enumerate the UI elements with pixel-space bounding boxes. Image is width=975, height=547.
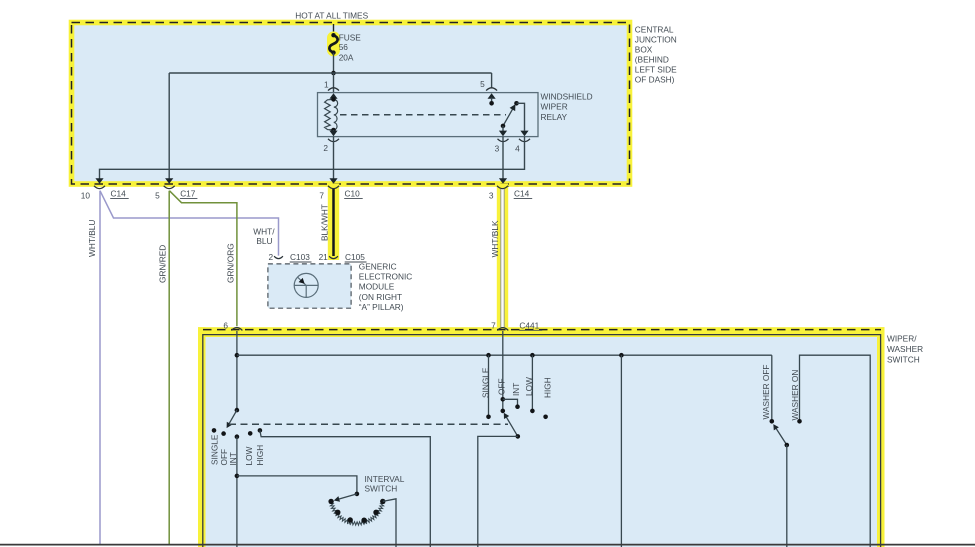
washer switch arm (776, 428, 787, 446)
svg-text:WASHER: WASHER (887, 344, 923, 354)
svg-text:21: 21 (319, 252, 329, 262)
C441 pin 7 entry (497, 328, 508, 331)
central junction box (CJB) outline (72, 23, 630, 185)
svg-text:WASHER OFF: WASHER OFF (761, 364, 771, 419)
wire: relay pin 3 down to C14 exit (502, 137, 504, 180)
svg-text:6: 6 (223, 320, 228, 330)
svg-text:“A” PILLAR): “A” PILLAR) (359, 302, 404, 312)
svg-text:(ON RIGHT: (ON RIGHT (359, 292, 402, 302)
svg-text:5: 5 (155, 190, 160, 200)
wire BLK/WHT (yellow highlighted) CJB to GEM pin 21 (328, 184, 339, 261)
svg-text:C10: C10 (345, 189, 361, 199)
GEM pin 21 C105 (329, 256, 338, 258)
relay box U: windshield wiper relay (318, 93, 539, 137)
relay pin 4 exit (520, 131, 528, 137)
fuse 56 20A (yellow highlighted) (327, 32, 340, 57)
svg-text:1: 1 (324, 80, 329, 90)
svg-text:GENERIC: GENERIC (359, 262, 397, 272)
wire: INT contact down / junction (236, 437, 238, 547)
svg-text:2: 2 (268, 252, 273, 262)
svg-text:C14: C14 (111, 189, 127, 199)
center switch arm (505, 415, 518, 436)
svg-text:LOW: LOW (524, 377, 534, 396)
relay pin 3 exit (502, 126, 504, 131)
washer switch contacts (770, 419, 775, 424)
svg-text:HIGH: HIGH (255, 445, 265, 466)
GEM internal timer symbol (294, 273, 318, 297)
CJB exit 3 C14 (499, 178, 507, 184)
svg-text:SINGLE: SINGLE (480, 367, 490, 398)
wire: bus segment washer on (800, 355, 871, 547)
wire: interval arc to lower right (383, 499, 396, 547)
svg-text:SINGLE: SINGLE (209, 434, 219, 465)
wire GRN/ORG branch to C441 pin 6 (169, 191, 237, 327)
svg-text:10: 10 (81, 190, 91, 200)
wire WHT/BLU vertical (to bottom of page) (99, 191, 101, 544)
svg-text:WHT/BLK: WHT/BLK (490, 220, 500, 257)
interval switch rheostat arc (330, 501, 337, 513)
svg-text:3: 3 (495, 143, 500, 153)
svg-text:C103: C103 (290, 252, 310, 262)
wire: moving contact to lower bus (478, 436, 518, 547)
svg-text:GRN/RED: GRN/RED (158, 245, 168, 283)
wire: fuse to node (333, 53, 335, 73)
wire: drop to pin 5 of relay (491, 73, 493, 88)
left switch contacts SINGLE OFF INT LOW HIGH (212, 428, 217, 433)
wire: HIGH contact to lower bus (260, 430, 430, 547)
center contacts: SINGLE / LOW stems, HIGH dot (488, 355, 490, 417)
svg-text:OF DASH): OF DASH) (635, 75, 675, 85)
relay switch arm (503, 108, 514, 126)
svg-text:7: 7 (491, 321, 496, 331)
wire GRN/RED vertical (168, 191, 170, 544)
svg-text:OFF: OFF (497, 378, 507, 395)
CJB exit 10 C14 (95, 178, 103, 184)
svg-text:INTERVAL: INTERVAL (365, 474, 405, 484)
svg-text:WINDSHIELD: WINDSHIELD (541, 92, 593, 102)
wire WHT/BLK (yellow highlighted) CJB to C441 pin 7 (497, 184, 508, 331)
relay contact: fixed point (pin 5 side) (514, 101, 519, 106)
wire: relay pin 4 down then left to C14 pin 10 exit (100, 137, 525, 180)
wire: long vertical from bus (620, 355, 622, 547)
svg-text:HIGH: HIGH (543, 377, 553, 398)
wire: top bus across box (237, 354, 772, 356)
svg-text:BLK/WHT: BLK/WHT (320, 204, 330, 241)
center switch: wire pin 7 down (502, 331, 504, 411)
wire: battery feed into fuse (333, 24, 335, 35)
svg-text:WASHER ON: WASHER ON (790, 370, 800, 421)
svg-text:C17: C17 (180, 189, 196, 199)
svg-text:SWITCH: SWITCH (365, 484, 398, 494)
relay coil (resistor+inductor) (325, 99, 334, 130)
svg-text:CENTRAL: CENTRAL (635, 25, 674, 35)
CJB exit 5 C17 (165, 178, 173, 184)
svg-text:2: 2 (323, 143, 328, 153)
pin 1 connector (328, 88, 339, 91)
page bottom edge line (0, 544, 975, 546)
relay pin 2 exit (333, 130, 335, 131)
svg-text:WHT/BLU: WHT/BLU (87, 220, 97, 257)
svg-text:BLU: BLU (256, 236, 272, 246)
wire: node down to relay pin 1 (333, 73, 335, 93)
branch to INT contact (503, 399, 518, 406)
svg-text:LEFT SIDE: LEFT SIDE (635, 65, 677, 75)
left switch: pivot and arm (235, 408, 240, 413)
wire: washer moving contact down (786, 445, 788, 547)
svg-text:WHT/: WHT/ (253, 227, 275, 237)
svg-text:WIPER/: WIPER/ (887, 334, 917, 344)
svg-text:20A: 20A (339, 52, 354, 62)
svg-text:(BEHIND: (BEHIND (635, 55, 669, 65)
dashed link left switch to center switch (229, 423, 508, 425)
GEM box: generic electronic module (268, 264, 351, 308)
svg-text:LOW: LOW (244, 446, 254, 465)
dashed mechanical link coil to contacts (340, 114, 506, 116)
svg-text:3: 3 (489, 190, 494, 200)
svg-text:ELECTRONIC: ELECTRONIC (359, 272, 412, 282)
wire: relay pin 2 down to C10 exit (333, 137, 335, 180)
svg-text:C441: C441 (519, 321, 539, 331)
wire WHT/BLU branch to GEM pin 2 (100, 191, 279, 256)
svg-text:7: 7 (319, 190, 324, 200)
node: pin6 / bus junction (235, 353, 240, 358)
pin 5 connector (486, 88, 497, 91)
interval switch arm (337, 494, 357, 500)
svg-text:RELAY: RELAY (541, 112, 568, 122)
svg-text:WIPER: WIPER (541, 102, 568, 112)
svg-text:BOX: BOX (635, 45, 653, 55)
svg-text:SWITCH: SWITCH (887, 354, 920, 364)
svg-text:JUNCTION: JUNCTION (635, 35, 677, 45)
svg-text:INT: INT (511, 383, 521, 396)
wire: to interval switch (237, 476, 357, 494)
GEM pin 2 C103 (274, 256, 283, 258)
wire: horizontal bus at y=73 (169, 72, 491, 74)
node: fuse output junction (331, 71, 336, 76)
C441 pin 6 entry (231, 328, 242, 331)
svg-text:MODULE: MODULE (359, 282, 395, 292)
wiper/washer switch box (198, 327, 885, 547)
svg-text:4: 4 (515, 143, 520, 153)
wire: drop to C17 exit (168, 73, 170, 180)
svg-text:FUSE: FUSE (339, 32, 362, 42)
svg-text:C14: C14 (514, 189, 530, 199)
svg-text:GRN/ORG: GRN/ORG (225, 243, 235, 283)
CJB exit 7 C10 (329, 178, 337, 184)
svg-text:5: 5 (480, 79, 485, 89)
wire: bus down to washer off contact (771, 355, 773, 421)
svg-text:56: 56 (339, 42, 349, 52)
wire: pin 6 down to left switch pivot (236, 331, 238, 410)
svg-text:HOT AT ALL TIMES: HOT AT ALL TIMES (295, 10, 368, 20)
